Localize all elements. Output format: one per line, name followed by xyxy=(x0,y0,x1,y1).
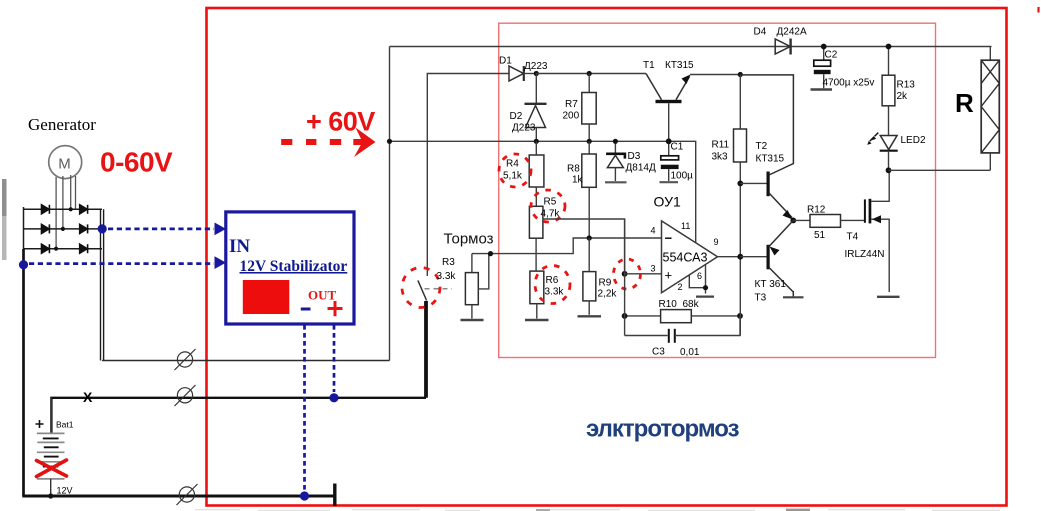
svg-text:5,1k: 5,1k xyxy=(503,171,523,182)
svg-text:OUT: OUT xyxy=(308,288,337,303)
blue dashed wire from OUT minus xyxy=(303,325,306,490)
svg-text:R12: R12 xyxy=(807,205,826,216)
transistor T3 xyxy=(740,220,803,303)
node: D3 on +12V rail xyxy=(613,139,618,144)
mosfet T4 IRLZ44N xyxy=(845,171,900,297)
resistor R5 xyxy=(529,197,560,272)
svg-text:200: 200 xyxy=(563,111,580,122)
svg-text:R9: R9 xyxy=(599,278,612,289)
wire: D1 feed y=73.5 xyxy=(427,74,509,277)
phase mark φ2 xyxy=(175,385,196,406)
blue dashed wire to stabilizer IN (lower) xyxy=(29,256,226,269)
svg-text:51: 51 xyxy=(814,230,826,241)
resistor R11 xyxy=(712,75,747,163)
wire: LED node to load R xyxy=(889,169,991,171)
node: T2/T3 emitter junction xyxy=(790,218,796,224)
node: output / T3 base junction xyxy=(737,254,743,260)
svg-text:Тормоз: Тормоз xyxy=(444,231,494,248)
svg-text:X: X xyxy=(83,389,93,405)
node: T2 base junction xyxy=(737,181,743,187)
resistor R9 xyxy=(578,238,618,316)
transistor T2 xyxy=(740,75,793,220)
capacitor C3 xyxy=(625,316,740,358)
svg-text:3.3k: 3.3k xyxy=(545,287,565,298)
resistor R7 xyxy=(563,74,597,142)
bridge diode row3 right xyxy=(80,244,88,253)
svg-text:4700µ x25v: 4700µ x25v xyxy=(823,78,875,89)
resistor R6 xyxy=(525,271,564,320)
wire: brake divider line to op-amp minus xyxy=(472,238,662,254)
svg-text:R7: R7 xyxy=(565,99,578,110)
svg-text:4: 4 xyxy=(651,226,656,236)
node: LED cathode / T4 drain xyxy=(886,167,892,173)
svg-text:3: 3 xyxy=(651,264,656,274)
svg-text:Generator: Generator xyxy=(28,115,96,134)
svg-text:R: R xyxy=(955,88,974,118)
svg-text:M: M xyxy=(58,156,71,173)
resistor R4 xyxy=(503,141,544,206)
svg-text:R10: R10 xyxy=(659,299,678,310)
svg-text:2k: 2k xyxy=(897,91,909,102)
12V stabilizer box xyxy=(226,212,354,324)
svg-text:IN: IN xyxy=(229,236,250,257)
node: plus input junction xyxy=(622,271,628,277)
transistor T1 xyxy=(643,60,694,141)
svg-text:12V Stabilizator: 12V Stabilizator xyxy=(240,258,348,275)
svg-text:+ 60V: + 60V xyxy=(306,107,375,137)
node: D1 cathode xyxy=(534,71,539,76)
bridge rectifier frame xyxy=(24,207,103,250)
svg-text:0-60V: 0-60V xyxy=(100,147,173,178)
node: OUT- to bottom wire (blue) xyxy=(300,491,309,500)
red dashed highlight circle (switch) xyxy=(402,268,440,308)
svg-text:9: 9 xyxy=(714,237,719,247)
battery Bat1 xyxy=(36,398,74,499)
svg-text:R8: R8 xyxy=(567,164,580,175)
svg-text:LED2: LED2 xyxy=(901,135,926,146)
svg-text:T3: T3 xyxy=(755,293,767,304)
svg-text:100µ: 100µ xyxy=(671,171,694,182)
node: R7/R8 on +12V rail xyxy=(587,139,592,144)
svg-text:3k3: 3k3 xyxy=(712,152,729,163)
svg-text:6: 6 xyxy=(697,271,702,281)
wire: schematic left vertical x=389.5 xyxy=(389,47,391,361)
led LED2 xyxy=(867,133,926,171)
wire: generator output to schematic (y=360) xyxy=(102,360,390,362)
diode D4 xyxy=(754,27,807,55)
bridge diode row2 right xyxy=(80,224,88,233)
node: R7 top junction xyxy=(587,71,592,76)
svg-text:Д814Д: Д814Д xyxy=(626,163,656,174)
svg-text:T2: T2 xyxy=(756,141,768,152)
svg-text:D3: D3 xyxy=(628,151,641,162)
svg-text:2,2k: 2,2k xyxy=(598,289,618,300)
svg-text:R11: R11 xyxy=(712,140,730,151)
capacitor C1 xyxy=(660,141,694,182)
svg-text:элктротормоз: элктротормоз xyxy=(586,416,740,443)
node: D2 anode on +12V rail xyxy=(534,139,539,144)
svg-text:12V: 12V xyxy=(57,486,73,496)
switch Тормоз (brake) xyxy=(418,280,452,397)
node: R10 right xyxy=(737,313,743,319)
wire: bottom return y=496 xyxy=(22,495,334,498)
svg-text:68k: 68k xyxy=(683,299,700,310)
load resistor R xyxy=(955,47,999,171)
node: R13 on top rail xyxy=(886,44,892,50)
diode D1 xyxy=(499,56,548,82)
svg-text:D1: D1 xyxy=(499,56,512,67)
zener D3 xyxy=(605,141,656,182)
svg-text:КТ 361: КТ 361 xyxy=(755,279,787,290)
resistor R10 xyxy=(625,299,740,323)
wire: left main vertical xyxy=(22,249,25,496)
phase mark φ1 xyxy=(175,349,196,370)
red dashed highlight circle (R5) xyxy=(531,190,565,222)
svg-text:C2: C2 xyxy=(825,50,838,61)
red dashed highlight circle (plus input node) xyxy=(614,259,641,289)
svg-text:КТ315: КТ315 xyxy=(756,154,785,165)
wire: +12V rail y=141.3 xyxy=(390,141,696,242)
svg-text:0,01: 0,01 xyxy=(680,347,700,358)
svg-text:T4: T4 xyxy=(847,232,859,243)
node: rail/left vertical junction xyxy=(387,139,392,144)
svg-text:554СА3: 554СА3 xyxy=(663,251,708,265)
resistor R13 xyxy=(882,47,915,136)
node: left wire tap (blue) xyxy=(19,260,28,269)
svg-text:1k: 1k xyxy=(572,175,584,186)
blue dashed wire from OUT plus xyxy=(333,325,336,392)
wire: R11 bottom vertical bus x=740.3 xyxy=(739,162,741,336)
junction dots on bridge rows xyxy=(54,207,73,251)
resistor R12 xyxy=(793,205,864,242)
wire: plus input xyxy=(625,273,662,275)
blue dashed wire to stabilizer IN (upper) xyxy=(108,223,226,236)
node: T1 emitter / R11 top xyxy=(738,72,743,77)
node: R3 tap junction xyxy=(488,251,493,256)
svg-text:D4: D4 xyxy=(754,27,767,38)
wire: T1 emitter to T2 branch xyxy=(690,74,740,76)
svg-text:2: 2 xyxy=(678,282,683,292)
wire: R5 tap to op-amp plus input xyxy=(543,219,625,274)
node: bridge output (blue) xyxy=(98,224,107,233)
node: R10 left xyxy=(622,313,628,319)
svg-text:3.3k: 3.3k xyxy=(437,271,457,282)
diode D2 xyxy=(510,74,547,142)
bridge diode row2 left xyxy=(42,224,50,233)
resistor R3 with tap xyxy=(437,254,489,320)
node: R8/R9 to minus input xyxy=(587,235,592,240)
node: C1 top on +12V rail xyxy=(666,138,672,144)
svg-text:КТ315: КТ315 xyxy=(665,60,694,71)
red dashed arrow +60V xyxy=(281,128,375,158)
red dashed highlight circle (R4) xyxy=(499,154,531,187)
svg-text:Bat1: Bat1 xyxy=(56,420,74,430)
wire: plus-node vertical x=624.6 xyxy=(624,219,626,336)
capacitor C2 xyxy=(811,47,875,90)
wire: bridge right double vertical xyxy=(101,209,104,360)
svg-text:Д223: Д223 xyxy=(512,123,536,134)
svg-text:+: + xyxy=(665,268,673,283)
svg-text:R4: R4 xyxy=(506,159,519,170)
motor M1 xyxy=(49,146,82,179)
svg-text:Д223: Д223 xyxy=(524,61,548,72)
svg-text:D2: D2 xyxy=(510,111,523,122)
bridge diode row1 left xyxy=(42,205,50,214)
svg-text:C1: C1 xyxy=(671,142,684,153)
svg-text:−: − xyxy=(665,231,673,246)
resistor R8 xyxy=(567,141,596,238)
svg-text:Д242А: Д242А xyxy=(777,27,807,38)
wire: pin2/pin6 to ground xyxy=(689,264,714,296)
wire: op-amp output xyxy=(718,256,741,258)
wire: top rail y=46.5 xyxy=(390,46,992,48)
bridge diode row3 left xyxy=(42,244,50,253)
svg-text:R13: R13 xyxy=(897,80,916,91)
wire: D1 cathode to T1 collector xyxy=(536,73,646,75)
svg-text:IRLZ44N: IRLZ44N xyxy=(845,249,885,260)
op-amp U1 ОУ1 554СА3 xyxy=(651,194,719,293)
red dashed highlight circle (R6) xyxy=(535,266,570,304)
svg-text:R6: R6 xyxy=(546,275,559,286)
svg-text:C3: C3 xyxy=(652,347,665,358)
svg-text:T1: T1 xyxy=(643,60,655,71)
node: OUT+ to battery wire (blue) xyxy=(329,393,338,402)
svg-text:R5: R5 xyxy=(544,197,557,208)
svg-text:R3: R3 xyxy=(442,257,455,268)
red X over Bat1 xyxy=(37,460,67,477)
wire: battery line y=398 xyxy=(51,398,426,433)
terminator bar at end of bottom wire xyxy=(333,484,336,507)
node: pin6 junction xyxy=(703,285,708,290)
svg-text:11: 11 xyxy=(681,221,690,231)
bridge diode row1 right xyxy=(80,205,88,214)
svg-text:ОУ1: ОУ1 xyxy=(654,194,681,210)
node: C2 on top rail xyxy=(821,44,827,50)
phase mark φ3 xyxy=(177,484,198,505)
wire: motor leads xyxy=(56,175,75,249)
